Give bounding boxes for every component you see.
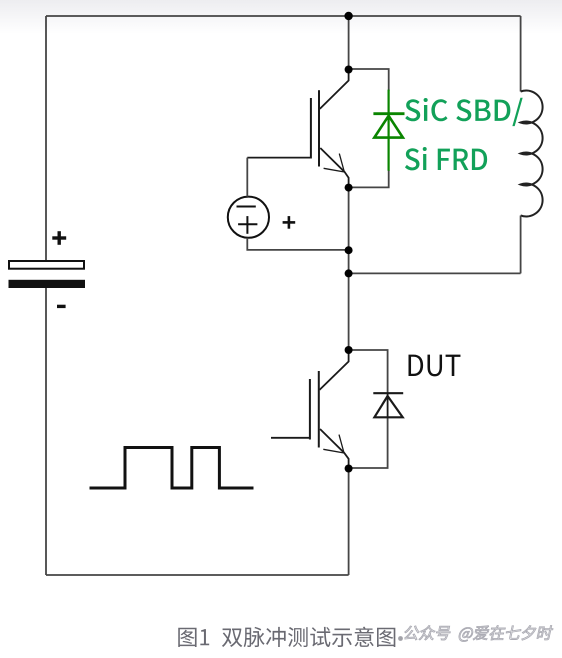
IGBT Q1 emitter stroke bbox=[320, 148, 348, 185]
wire D2 top branch bbox=[349, 350, 388, 393]
label minus inside V1 bbox=[237, 206, 256, 208]
node Q2 collector bbox=[345, 346, 353, 354]
wire top rail bbox=[46, 15, 521, 17]
watermark 公众号 @爱在七夕时 bbox=[403, 625, 554, 641]
diode D1 cathode bar bbox=[373, 112, 404, 115]
wire D1 top branch bbox=[349, 69, 389, 91]
IGBT Q1 gate lead bbox=[247, 157, 311, 159]
wire V1 bottom lead to bus bbox=[247, 238, 348, 250]
diode D2 cathode bar bbox=[373, 392, 403, 394]
label DUT bbox=[408, 355, 423, 376]
IGBT Q1 collector stroke bbox=[320, 72, 349, 109]
node inductor return bbox=[345, 269, 353, 277]
IGBT Q1 body bar bbox=[318, 90, 320, 166]
label Si FRD bbox=[405, 148, 420, 170]
wire top feed to Q1 collector bbox=[348, 16, 350, 70]
label plus of C1 bbox=[52, 231, 66, 245]
IGBT Q2 emitter arrow barb vertical bbox=[339, 435, 344, 453]
IGBT Q2 emitter arrow barb horizontal bbox=[323, 449, 344, 453]
diode D1 anode triangle bbox=[374, 116, 403, 138]
wire right rail upper bbox=[520, 16, 522, 92]
pulse waveform gate signal bbox=[90, 448, 254, 489]
wire left rail lower bbox=[45, 288, 47, 576]
wire Q1 emitter to midpoint bus bbox=[348, 184, 350, 350]
node top rail junction bbox=[344, 12, 352, 20]
IGBT Q2 body bar bbox=[318, 371, 320, 448]
wire bottom rail bbox=[46, 574, 349, 576]
IGBT Q2 emitter stroke bbox=[320, 429, 349, 466]
label minus of C1 bbox=[57, 305, 66, 308]
IGBT Q1 emitter arrow barb horizontal bbox=[324, 168, 345, 172]
IGBT Q2 (DUT) gate lead bbox=[271, 437, 310, 439]
watermark logo disc bbox=[398, 636, 403, 641]
IGBT Q1 gate bar bbox=[310, 98, 312, 159]
wire right rail lower bbox=[520, 216, 522, 274]
label plus inside V1 bbox=[238, 216, 257, 234]
wire Q2 emitter to bottom rail bbox=[348, 469, 350, 576]
IGBT Q2 gate bar bbox=[309, 379, 311, 440]
diode D1 SiC SBD / Si FRD (green) lead bbox=[388, 90, 390, 171]
wire V1 top lead to Q1 gate bbox=[246, 158, 248, 197]
label SiC SBD/ bbox=[405, 99, 420, 121]
node gate return bbox=[345, 246, 353, 254]
node Q1 collector bbox=[345, 66, 353, 74]
IGBT Q2 collector stroke bbox=[320, 353, 349, 390]
label plus beside V1 bbox=[283, 216, 296, 229]
wire D2 bottom branch bbox=[349, 417, 388, 468]
caption 图1 双脉冲测试示意图 bbox=[178, 627, 395, 647]
capacitor C1 DC bus top plate bbox=[9, 261, 84, 269]
IGBT Q1 emitter arrow barb vertical bbox=[339, 154, 344, 172]
node Q2 emitter bbox=[345, 465, 353, 473]
diode D2 anode triangle bbox=[374, 396, 402, 417]
inductor L1 load coil bbox=[521, 91, 543, 217]
node Q1 emitter bbox=[345, 184, 353, 192]
wire inductor return to midpoint bbox=[349, 272, 521, 274]
capacitor C1 DC bus bottom plate bbox=[9, 280, 86, 288]
diode D2 lead through bbox=[387, 393, 389, 418]
voltage source V1 gate drive circle bbox=[228, 197, 269, 238]
wire left rail upper bbox=[45, 16, 47, 262]
wire D1 bottom branch bbox=[349, 170, 389, 187]
